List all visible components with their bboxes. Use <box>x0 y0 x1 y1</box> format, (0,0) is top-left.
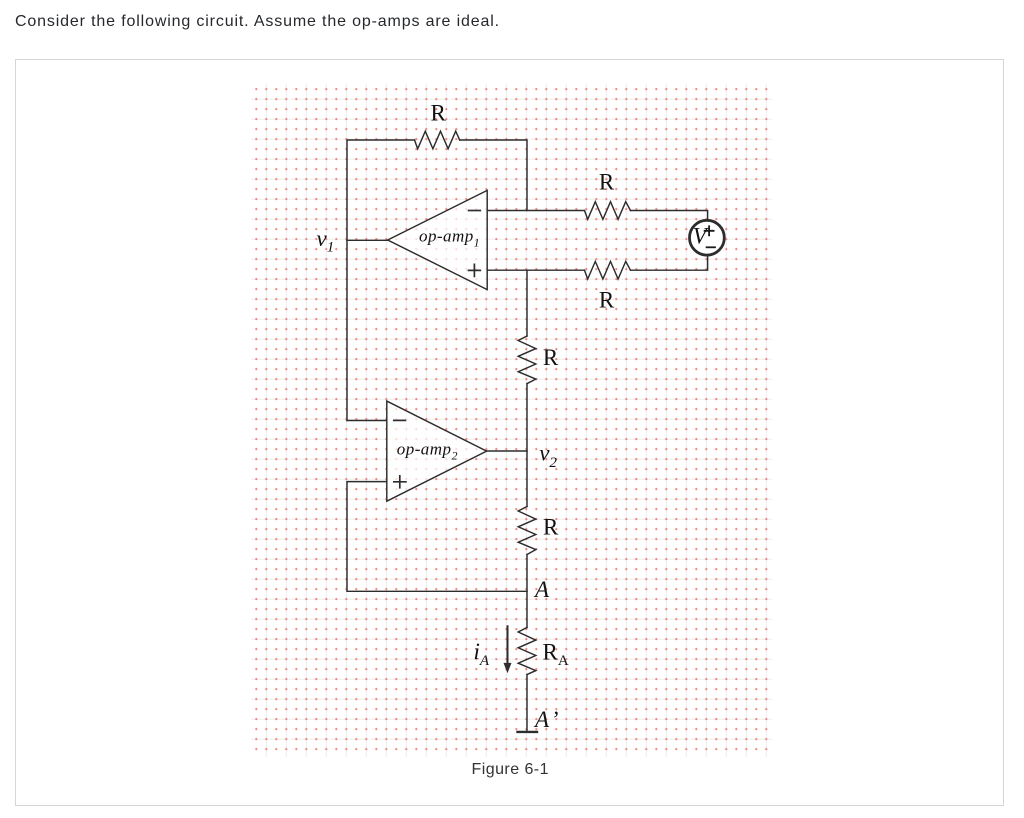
minus sign inside source <box>707 246 715 248</box>
arrowhead of iA <box>504 663 512 673</box>
wire: resistor to source bottom <box>631 257 708 271</box>
wire: left vertical bus v1 (x=347) from top feedback corner down to op-amp2 minus input <box>347 140 415 421</box>
svg-text:A’: A’ <box>533 707 558 732</box>
wire: middle vertical from op-amp1 + wire down to R <box>526 270 528 336</box>
wire: op-amp2 inverting input stub <box>347 420 387 422</box>
minus sign of op-amp U1 <box>469 210 481 212</box>
plus sign inside source <box>705 226 714 235</box>
resistor R (lower vertical) <box>518 507 536 555</box>
wire: op-amp2 output to v2 node <box>487 450 527 452</box>
svg-text:iA: iA <box>474 639 490 669</box>
resistor R (to source -) <box>585 261 631 279</box>
svg-text:Figure 6-1: Figure 6-1 <box>472 761 549 778</box>
op-amp U2 (points right) <box>387 401 487 501</box>
wire: op-amp2 non-inverting input loop down to node A <box>347 482 527 592</box>
minus sign of op-amp U2 <box>394 419 406 421</box>
svg-text:v1: v1 <box>317 226 335 255</box>
resistor RA <box>518 628 536 675</box>
wire: op-amp1 inverting input to resistor <box>487 210 584 212</box>
svg-text:RA: RA <box>543 639 569 669</box>
svg-text:v2: v2 <box>539 441 557 471</box>
resistor R (to source +) <box>585 202 631 220</box>
svg-text:R: R <box>543 515 559 540</box>
wire: v1 stub to op-amp1 output apex <box>347 239 387 241</box>
svg-text:R: R <box>599 288 615 313</box>
svg-text:R: R <box>431 101 447 126</box>
resistor R (upper vertical) <box>518 336 536 384</box>
wire: RA to terminal A' <box>526 675 528 732</box>
terminal bar A' <box>518 731 538 733</box>
svg-text:A: A <box>533 577 550 602</box>
svg-text:R: R <box>543 345 559 370</box>
dotted grid background <box>251 84 772 757</box>
plus sign of op-amp U1 <box>469 264 481 276</box>
wire: vertical to v2 node and on to R2 <box>526 384 528 507</box>
resistor R (top feedback) <box>415 131 460 149</box>
current arrow iA <box>507 626 509 665</box>
wire: top feedback right segment to x=527 <box>460 140 527 211</box>
wire: vertical to node A and on to RA <box>526 555 528 628</box>
wire: op-amp1 non-inverting input to resistor <box>487 269 584 271</box>
op-amp U1 (points left) <box>388 190 488 289</box>
wire: resistor to source top <box>631 211 708 220</box>
svg-text:R: R <box>599 170 615 195</box>
plus sign of op-amp U2 <box>394 476 406 488</box>
voltage source V circle <box>690 220 725 255</box>
